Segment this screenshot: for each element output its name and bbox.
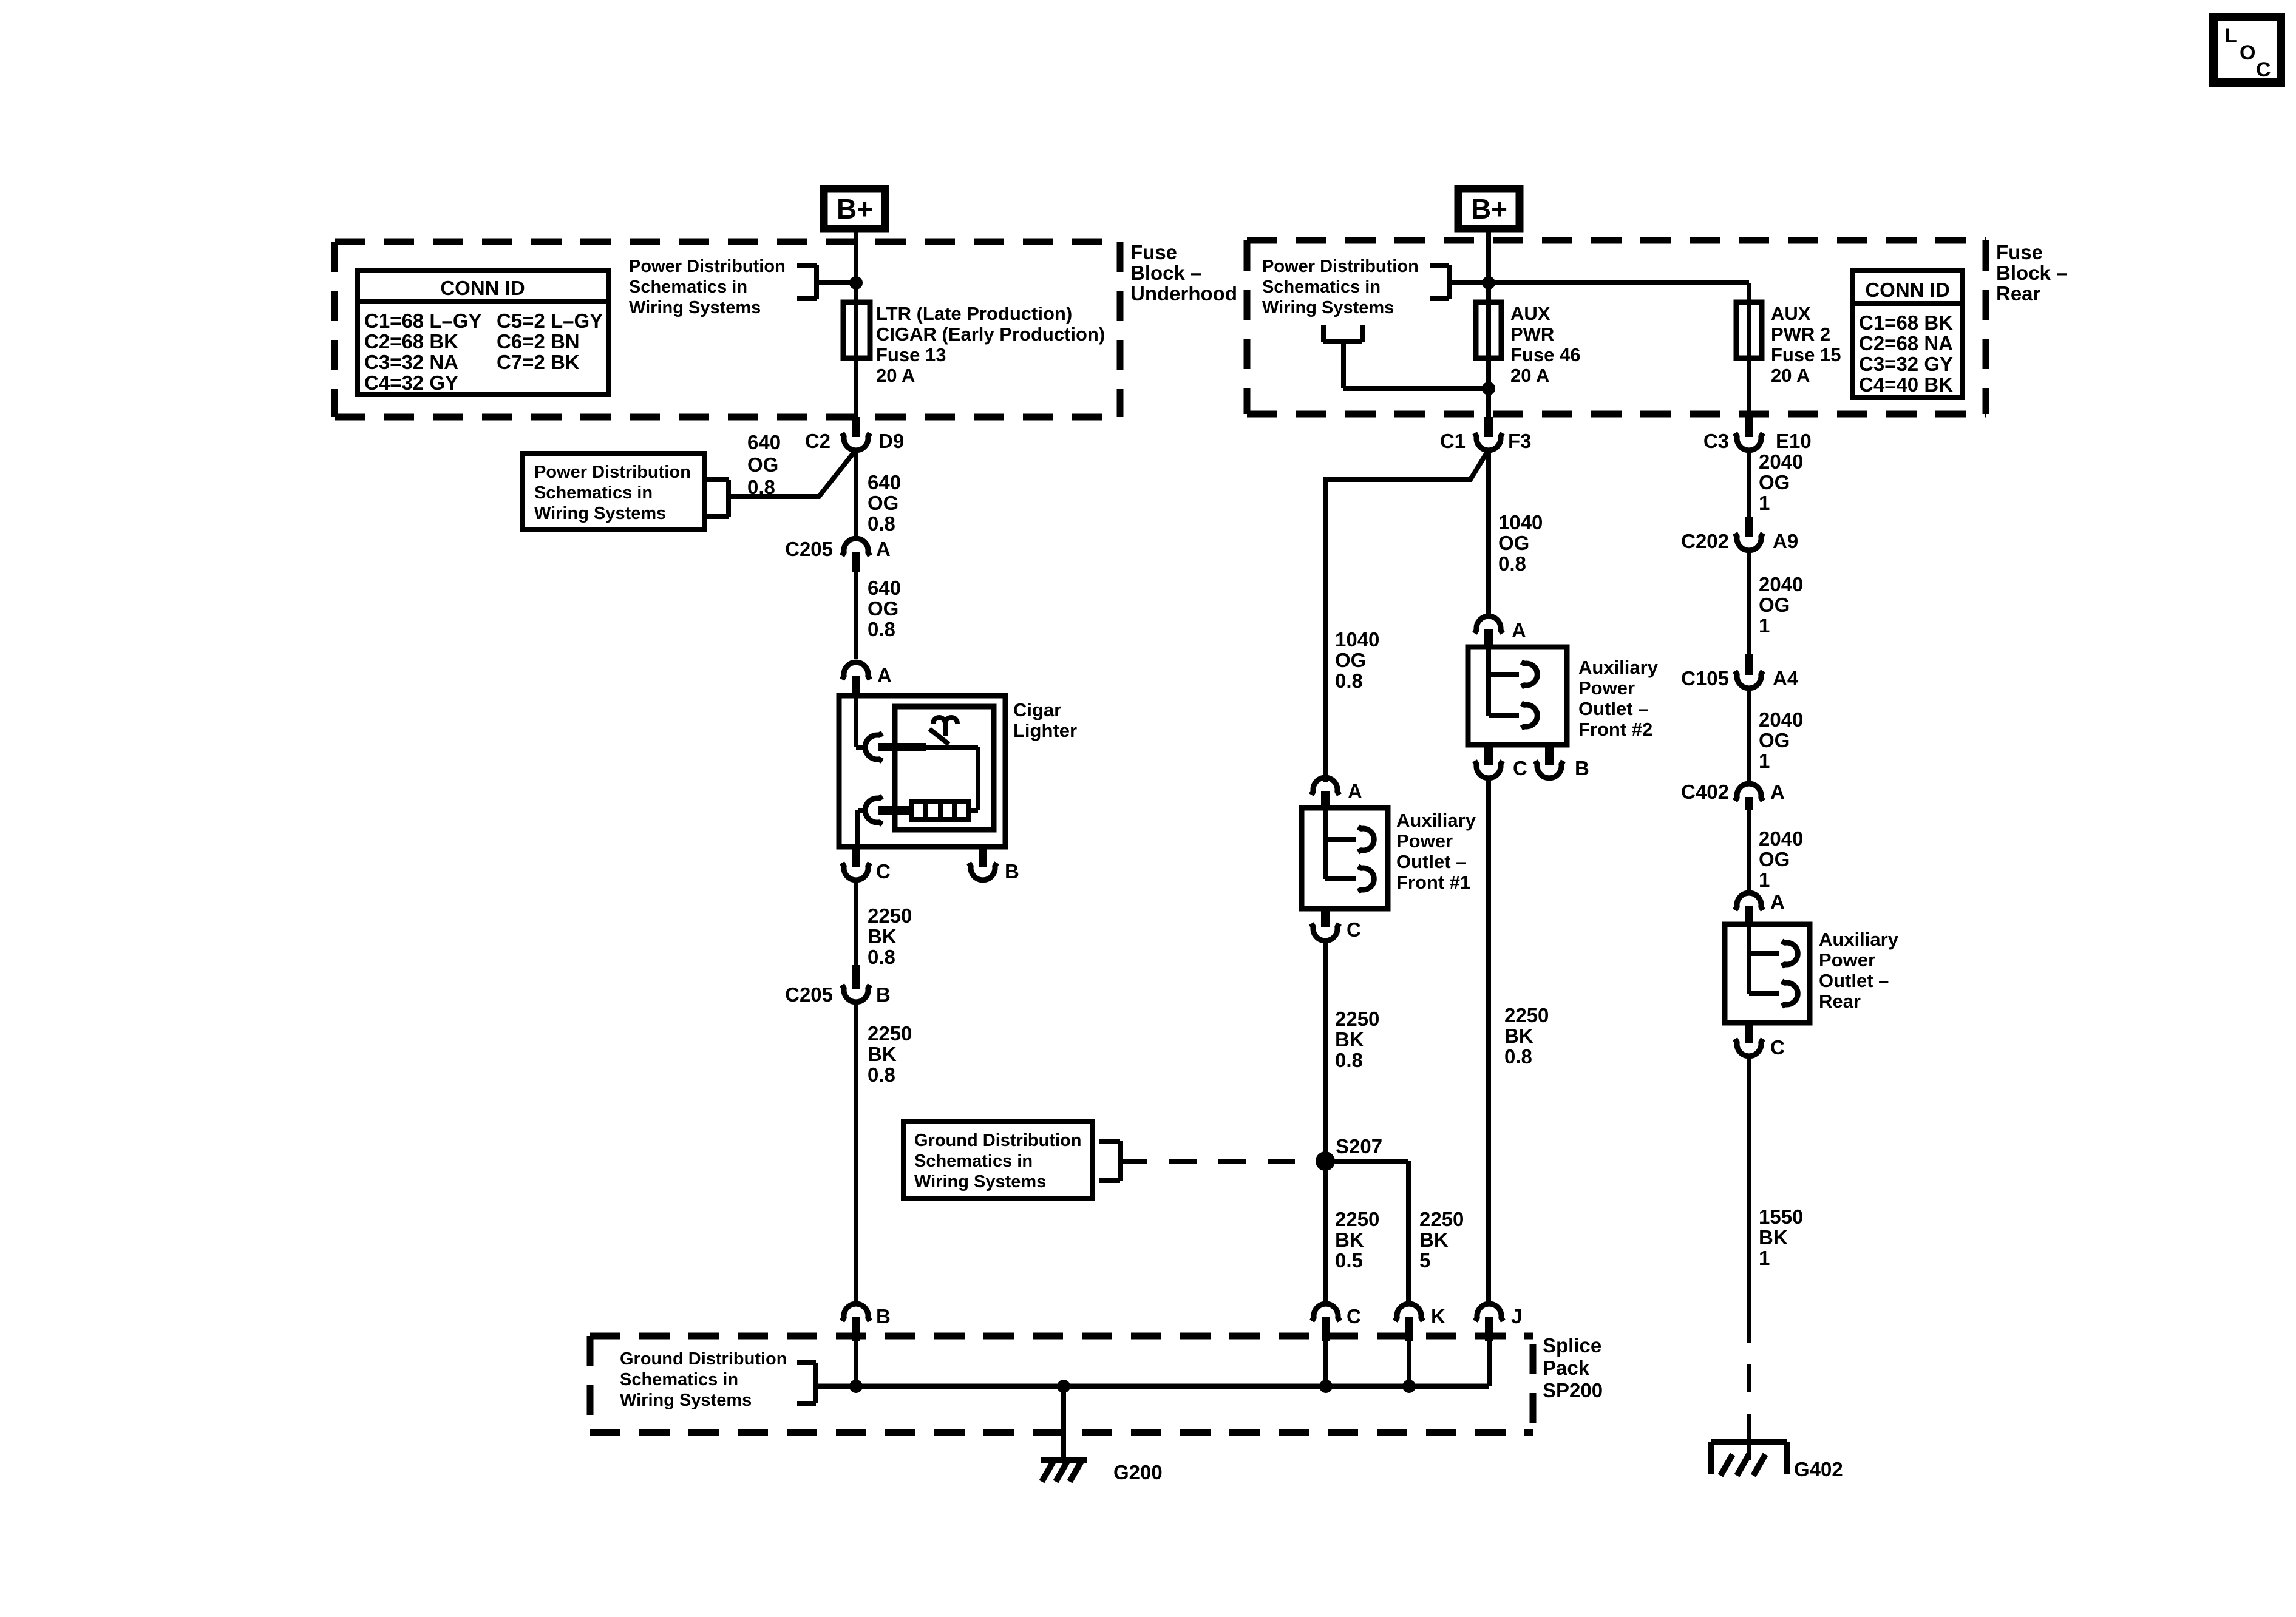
fuse block - underhood label (1130, 241, 1237, 305)
fuse block - rear label (1996, 241, 2067, 305)
svg-text:K: K (1431, 1305, 1445, 1327)
svg-text:Rear: Rear (1819, 991, 1861, 1012)
svg-text:0.8: 0.8 (1335, 670, 1363, 692)
wire outlet rear to G402 (1747, 1057, 1751, 1315)
svg-text:2250: 2250 (1335, 1208, 1379, 1230)
svg-text:Schematics in: Schematics in (629, 277, 747, 297)
svg-text:G200: G200 (1113, 1461, 1163, 1483)
svg-text:OG: OG (1759, 471, 1790, 493)
wire C205 to cigar lighter (854, 572, 858, 659)
svg-text:0.8: 0.8 (1504, 1045, 1532, 1068)
cigar lighter terminal A socket (856, 696, 926, 761)
svg-text:Power: Power (1578, 677, 1635, 699)
svg-text:LTR (Late Production): LTR (Late Production) (876, 303, 1072, 324)
ground distribution reference box (903, 1122, 1120, 1199)
connector pin C (aux power outlet rear) (1735, 1023, 1785, 1059)
wire cigar lighter ground side (854, 881, 858, 965)
svg-text:C105: C105 (1681, 667, 1729, 690)
svg-text:SP200: SP200 (1543, 1379, 1603, 1402)
svg-text:Wiring Systems: Wiring Systems (534, 504, 666, 523)
svg-text:20 A: 20 A (1510, 365, 1549, 386)
svg-text:Block –: Block – (1130, 262, 1201, 284)
svg-text:C3=32 GY: C3=32 GY (1859, 353, 1953, 375)
connector C1 pin F3 (1440, 417, 1532, 452)
svg-text:Power Distribution: Power Distribution (534, 463, 691, 482)
svg-text:OG: OG (1759, 594, 1790, 616)
svg-text:0.5: 0.5 (1335, 1249, 1363, 1272)
connector pin J (splice pack SP200) (1475, 1304, 1522, 1386)
svg-text:2250: 2250 (868, 1022, 912, 1045)
svg-text:Power: Power (1396, 830, 1453, 852)
svg-text:0.8: 0.8 (747, 476, 775, 498)
wire outlet front 1 to S207 (1323, 940, 1328, 1302)
wire label 1040 OG 0.8 (front 2) (1498, 511, 1543, 575)
aux power outlet front 1 box (1302, 808, 1476, 909)
svg-text:BK: BK (1504, 1025, 1533, 1047)
svg-text:Outlet –: Outlet – (1819, 970, 1889, 991)
junction node below Fuse 46 (1482, 382, 1495, 395)
wire B+ through Fuse 46 to C1 (1486, 229, 1491, 419)
svg-text:BK: BK (868, 1043, 897, 1065)
svg-text:Block –: Block – (1996, 262, 2067, 284)
svg-text:C205: C205 (785, 538, 833, 560)
svg-text:Wiring Systems: Wiring Systems (629, 298, 761, 317)
wire label 1550 BK 1 (1759, 1205, 1803, 1269)
wire S207 branch to K (1325, 1161, 1408, 1302)
wire label 640 OG 0.8 (above C205) (868, 471, 901, 535)
cigar lighter latch/switch (929, 717, 957, 744)
svg-text:BK: BK (868, 925, 897, 947)
svg-text:Wiring Systems: Wiring Systems (620, 1391, 752, 1410)
svg-text:BK: BK (1335, 1229, 1364, 1251)
wire C105 to C402 (1747, 688, 1751, 782)
svg-text:A9: A9 (1773, 530, 1798, 552)
svg-text:C5=2 L–GY: C5=2 L–GY (497, 310, 603, 332)
connector C202 pin A9 (1681, 517, 1798, 552)
svg-text:640: 640 (868, 471, 901, 493)
wire outlet front 2 to splice pack (1486, 779, 1491, 1302)
connector pin C (splice pack SP200) (1312, 1304, 1361, 1386)
svg-text:BK: BK (1759, 1226, 1788, 1249)
svg-text:J: J (1511, 1305, 1522, 1327)
svg-text:OG: OG (868, 492, 898, 514)
connector C3 pin E10 (1703, 417, 1812, 452)
splice pack SP200 label (1543, 1334, 1603, 1402)
wire bus to G200 (1061, 1386, 1066, 1463)
svg-text:CONN ID: CONN ID (1865, 279, 1949, 301)
svg-text:A: A (1770, 781, 1785, 803)
junction node G200 wire on bus (1057, 1380, 1070, 1393)
wire label 2040 OG 1 (3) (1759, 708, 1803, 772)
wire label 2250 BK 5 (1419, 1208, 1464, 1272)
wire fuse 13 output to C205 (854, 450, 858, 537)
svg-text:Front #2: Front #2 (1578, 719, 1652, 740)
svg-text:C2: C2 (805, 430, 830, 452)
wire label 2250 BK 0.8 (front 2 ground) (1504, 1004, 1549, 1068)
svg-text:Fuse 15: Fuse 15 (1771, 344, 1841, 365)
connector pin K (splice pack SP200) (1395, 1304, 1445, 1386)
svg-text:5: 5 (1419, 1249, 1430, 1272)
svg-text:Schematics in: Schematics in (620, 1370, 738, 1389)
ground bus SP200 (816, 1384, 1489, 1389)
svg-text:C2=68 NA: C2=68 NA (1859, 332, 1953, 354)
svg-text:C202: C202 (1681, 530, 1729, 552)
svg-text:C: C (1347, 1305, 1361, 1327)
svg-text:Power: Power (1819, 949, 1875, 971)
connector pin A (aux power outlet front 2) (1475, 616, 1526, 647)
svg-text:0.8: 0.8 (868, 618, 895, 640)
svg-text:1: 1 (1759, 869, 1770, 891)
svg-text:1: 1 (1759, 750, 1770, 772)
junction node on B+ feed (underhood) (849, 276, 863, 290)
svg-text:A: A (1348, 780, 1362, 802)
svg-text:E10: E10 (1776, 430, 1812, 452)
connector C205 pin A (785, 538, 891, 572)
svg-text:640: 640 (868, 577, 901, 599)
connector table CONN ID (rear) (1853, 270, 1962, 398)
wire C1 to outlet front 2 (1486, 450, 1491, 617)
connector C205 pin B (785, 965, 891, 1006)
svg-text:Power Distribution: Power Distribution (1262, 257, 1419, 276)
svg-text:2250: 2250 (868, 904, 912, 927)
svg-text:B+: B+ (1471, 193, 1507, 225)
svg-text:PWR 2: PWR 2 (1771, 324, 1830, 345)
svg-text:Wiring Systems: Wiring Systems (1262, 298, 1394, 317)
junction node K wire on bus (1402, 1380, 1416, 1393)
wire B+ feed to AUX PWR 2 (1449, 283, 1749, 419)
ground G402 (1711, 1442, 1843, 1480)
power distribution reference callout (rear) (1262, 257, 1489, 317)
svg-text:BK: BK (1419, 1229, 1449, 1251)
connector C105 pin A4 (1681, 654, 1799, 690)
svg-text:C4=40 BK: C4=40 BK (1859, 373, 1953, 396)
svg-text:Auxiliary: Auxiliary (1578, 657, 1659, 678)
svg-text:Pack: Pack (1543, 1357, 1590, 1379)
wire label 2250 BK 0.8 (above C205 B) (868, 904, 912, 968)
svg-text:2040: 2040 (1759, 827, 1803, 850)
wire label 2040 OG 1 (1) (1759, 450, 1803, 514)
svg-text:L: L (2224, 24, 2237, 47)
cigar lighter heating element (912, 747, 978, 819)
aux power outlet front 1 contacts (1325, 808, 1374, 892)
connector C2 pin D9 (805, 417, 904, 452)
fuse F13 LTR/CIGAR 20A (843, 302, 1105, 386)
wire label 2250 BK 0.8 (below C205 B) (868, 1022, 912, 1086)
svg-text:D9: D9 (878, 430, 904, 452)
aux power outlet rear contacts (1749, 924, 1798, 1006)
svg-text:Outlet –: Outlet – (1578, 698, 1648, 719)
svg-text:1040: 1040 (1335, 628, 1379, 651)
svg-text:640: 640 (747, 431, 781, 453)
battery positive voltage B+ terminal (underhood) (824, 189, 885, 229)
svg-text:C7=2 BK: C7=2 BK (497, 351, 580, 373)
svg-text:C2=68 BK: C2=68 BK (364, 330, 458, 353)
svg-text:Outlet –: Outlet – (1396, 851, 1466, 872)
power distribution reference box (640 OG circuit) (523, 453, 729, 530)
wire label 2250 BK 0.8 (front 1 ground) (1335, 1008, 1379, 1071)
svg-text:2250: 2250 (1504, 1004, 1549, 1026)
svg-text:A: A (877, 664, 892, 686)
connector pin A (cigar lighter) (842, 662, 892, 696)
svg-text:OG: OG (868, 597, 898, 620)
svg-text:C205: C205 (785, 983, 833, 1006)
svg-text:1550: 1550 (1759, 1205, 1803, 1228)
svg-text:OG: OG (1335, 649, 1366, 671)
connector pin A (aux power outlet front 1) (1311, 778, 1362, 808)
connector table CONN ID (underhood) (358, 270, 608, 395)
wire 640 OG branch to power distribution (729, 450, 856, 497)
svg-text:CIGAR (Early Production): CIGAR (Early Production) (876, 324, 1105, 345)
ground G200 (1041, 1460, 1163, 1483)
svg-text:0.8: 0.8 (1498, 552, 1526, 575)
svg-text:Schematics in: Schematics in (534, 483, 653, 503)
wire label 2250 BK 0.5 (1335, 1208, 1379, 1272)
svg-text:A4: A4 (1773, 667, 1799, 690)
svg-text:Schematics in: Schematics in (914, 1151, 1033, 1171)
junction node B+ feed (rear) (1482, 276, 1495, 290)
svg-text:C402: C402 (1681, 781, 1729, 803)
connector pin B (cigar lighter) (969, 847, 1019, 883)
svg-text:OG: OG (1498, 532, 1529, 554)
wire label 2040 OG 1 (4) (1759, 827, 1803, 891)
svg-text:A: A (1512, 619, 1526, 642)
svg-text:OG: OG (1759, 848, 1790, 870)
svg-text:B+: B+ (837, 193, 873, 225)
svg-text:Fuse: Fuse (1996, 241, 2043, 263)
fuse F15 AUX PWR 2 20A (1736, 302, 1841, 386)
junction node C wire on bus (1319, 1380, 1333, 1393)
svg-text:Fuse: Fuse (1130, 241, 1177, 263)
wire C202 to C105 (1747, 551, 1751, 654)
svg-text:Lighter: Lighter (1013, 720, 1077, 741)
svg-text:2040: 2040 (1759, 450, 1803, 473)
svg-text:C1: C1 (1440, 430, 1466, 452)
svg-text:AUX: AUX (1510, 303, 1550, 324)
wire B+ through Fuse 13 to C2 (854, 229, 858, 419)
svg-text:C3=32 NA: C3=32 NA (364, 351, 458, 373)
svg-text:0.8: 0.8 (868, 1063, 895, 1086)
svg-text:C3: C3 (1703, 430, 1729, 452)
connector pin C (cigar lighter) (842, 847, 891, 883)
wire branch C1 to outlet front 1 (1325, 450, 1489, 782)
svg-text:1: 1 (1759, 614, 1770, 637)
svg-text:2040: 2040 (1759, 573, 1803, 595)
splice pack SP200 dashed outline (590, 1336, 1533, 1432)
svg-text:2250: 2250 (1419, 1208, 1464, 1230)
svg-text:Power Distribution: Power Distribution (629, 257, 786, 276)
svg-text:B: B (1575, 757, 1589, 779)
svg-text:Splice: Splice (1543, 1334, 1601, 1357)
wire label 1040 OG 0.8 (front 1 branch) (1335, 628, 1379, 692)
dashed wire to splice S207 (1120, 1159, 1316, 1164)
svg-text:2040: 2040 (1759, 708, 1803, 731)
cigar lighter component box (839, 696, 1077, 847)
power distribution tap symbol (rear) (1323, 325, 1489, 388)
connector C402 pin A (1681, 781, 1785, 810)
connector pin C (aux power outlet front 2) (1475, 745, 1527, 779)
connector pin C (aux power outlet front 1) (1311, 909, 1361, 941)
wire label 2040 OG 1 (2) (1759, 573, 1803, 637)
svg-text:PWR: PWR (1510, 324, 1554, 345)
svg-text:1: 1 (1759, 1247, 1770, 1269)
svg-text:A: A (876, 538, 891, 560)
cigar lighter terminal C socket (858, 796, 913, 847)
svg-text:C1=68 L–GY: C1=68 L–GY (364, 310, 482, 332)
fuse block - underhood dashed outline (335, 242, 1120, 417)
svg-text:Rear: Rear (1996, 282, 2041, 305)
wire label 640 OG 0.8 (branch) (747, 431, 781, 498)
svg-text:B: B (876, 983, 891, 1006)
svg-text:C6=2 BN: C6=2 BN (497, 330, 580, 353)
connector pin B (splice pack SP200) (842, 1304, 891, 1386)
connector pin A (aux power outlet rear) (1735, 890, 1785, 924)
svg-text:F3: F3 (1508, 430, 1532, 452)
svg-text:S207: S207 (1336, 1135, 1382, 1158)
svg-text:B: B (876, 1305, 891, 1327)
svg-text:C: C (1347, 918, 1361, 941)
svg-text:OG: OG (747, 453, 778, 476)
svg-text:C: C (1513, 757, 1527, 779)
svg-text:AUX: AUX (1771, 303, 1811, 324)
dashed wire to G402 (1747, 1315, 1751, 1442)
svg-text:C: C (876, 860, 891, 883)
svg-text:CONN ID: CONN ID (440, 277, 525, 299)
svg-text:Fuse 13: Fuse 13 (876, 344, 946, 365)
connector pin B (aux power outlet front 2) (1535, 745, 1589, 779)
aux power outlet front 2 box (1468, 647, 1659, 745)
wire label 640 OG 0.8 (below C205) (868, 577, 901, 640)
svg-text:G402: G402 (1794, 1458, 1843, 1480)
svg-text:20 A: 20 A (876, 365, 915, 386)
svg-text:1040: 1040 (1498, 511, 1543, 534)
aux power outlet rear box (1725, 924, 1899, 1023)
junction node B wire on bus (849, 1380, 863, 1393)
power distribution reference callout (underhood) (629, 257, 856, 317)
svg-text:C: C (2256, 58, 2271, 81)
svg-text:A: A (1770, 890, 1785, 913)
wire C402 to outlet rear (1747, 810, 1751, 892)
svg-text:Auxiliary: Auxiliary (1396, 810, 1476, 831)
svg-text:Schematics in: Schematics in (1262, 277, 1381, 297)
svg-text:20 A: 20 A (1771, 365, 1810, 386)
svg-text:1: 1 (1759, 492, 1770, 514)
svg-text:B: B (1005, 860, 1019, 883)
svg-text:Fuse 46: Fuse 46 (1510, 344, 1580, 365)
svg-text:0.8: 0.8 (868, 946, 895, 968)
svg-text:Wiring Systems: Wiring Systems (914, 1172, 1046, 1192)
ground distribution reference callout (splice pack) (620, 1349, 816, 1410)
wire S207 to C (1323, 1161, 1328, 1302)
wire C205 B to splice pack (854, 1003, 858, 1302)
splice S207 (1316, 1135, 1382, 1171)
wire C3 to C202 (1747, 451, 1751, 517)
page corner LOC logo (2213, 17, 2281, 83)
svg-text:Ground Distribution: Ground Distribution (914, 1131, 1081, 1150)
svg-text:Auxiliary: Auxiliary (1819, 929, 1899, 950)
svg-text:BK: BK (1335, 1028, 1364, 1051)
svg-text:Cigar: Cigar (1013, 699, 1061, 720)
svg-text:C1=68 BK: C1=68 BK (1859, 311, 1953, 334)
fuse block - rear dashed outline (1247, 240, 1986, 414)
svg-text:2250: 2250 (1335, 1008, 1379, 1030)
svg-text:C: C (1770, 1036, 1785, 1059)
svg-text:0.8: 0.8 (868, 512, 895, 535)
svg-text:O: O (2240, 41, 2255, 64)
svg-text:Underhood: Underhood (1130, 282, 1237, 305)
aux power outlet front 2 contacts (1489, 647, 1537, 728)
battery positive voltage B+ terminal (rear) (1458, 189, 1520, 229)
svg-text:Front #1: Front #1 (1396, 872, 1470, 893)
svg-text:OG: OG (1759, 729, 1790, 751)
svg-text:Ground Distribution: Ground Distribution (620, 1349, 787, 1369)
svg-text:C4=32 GY: C4=32 GY (364, 371, 458, 394)
svg-text:0.8: 0.8 (1335, 1049, 1363, 1071)
fuse F46 AUX PWR 20A (1476, 302, 1580, 386)
